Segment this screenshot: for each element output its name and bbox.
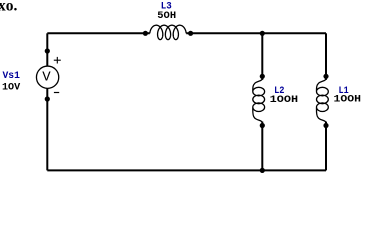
- svg-text:xo.: xo.: [0, 0, 18, 15]
- svg-text:5OH: 5OH: [157, 11, 176, 22]
- svg-text:V: V: [42, 70, 51, 86]
- svg-text:1OOH: 1OOH: [334, 95, 362, 106]
- svg-text:1OOH: 1OOH: [270, 95, 298, 106]
- svg-text:1OV: 1OV: [2, 82, 20, 93]
- svg-text:Vs1: Vs1: [3, 71, 20, 82]
